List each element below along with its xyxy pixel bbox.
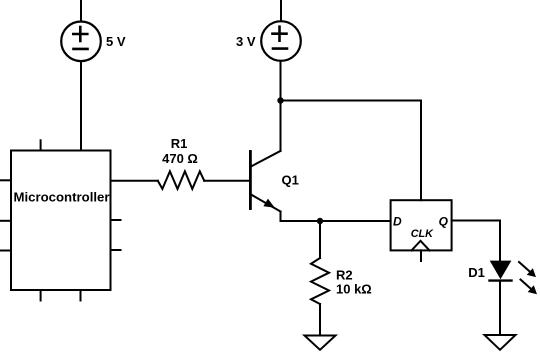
wire 3V top lead (280, 0, 282, 21)
svg-text:3 V: 3 V (236, 34, 256, 49)
V1 plus symbol (73, 27, 87, 41)
transistor Q1 base bar (249, 151, 252, 208)
LED light arrow 2 head (528, 285, 537, 294)
wire R2 to ground (319, 304, 321, 336)
junction node at 3V rail / collector (277, 97, 283, 103)
ground under LED (485, 335, 516, 350)
microcontroller bottom pin 1 (40, 290, 42, 301)
resistor R1 zigzag (158, 171, 204, 189)
resistor R2 zigzag (311, 258, 329, 304)
wire 5V source to microcontroller top pin (80, 61, 82, 150)
svg-text:Microcontroller: Microcontroller (14, 190, 110, 205)
svg-text:Q: Q (439, 214, 449, 228)
LED light arrow 1 head (527, 268, 536, 277)
transistor Q1 emitter diagonal (251, 195, 281, 212)
wire LED to ground (499, 281, 501, 335)
transistor Q1 emitter arrowhead (263, 199, 274, 208)
microcontroller right pin 3 stub (111, 249, 121, 251)
V2 minus symbol (273, 47, 287, 50)
junction node emitter / R2 / D input (317, 218, 323, 224)
svg-text:R2: R2 (336, 268, 353, 283)
microcontroller bottom pin 2 (80, 290, 82, 301)
svg-text:Q1: Q1 (282, 173, 299, 188)
voltage source V2 3V circle (261, 21, 301, 61)
microcontroller U1 box (11, 151, 111, 291)
voltage source V1 5V circle (61, 22, 101, 62)
microcontroller top pin stub (40, 140, 42, 150)
svg-text:10 kΩ: 10 kΩ (336, 282, 372, 297)
wire 3V rail to flip-flop top (281, 101, 422, 201)
microcontroller right pin 2 stub (111, 219, 121, 221)
ground under R2 (305, 336, 336, 350)
svg-text:D1: D1 (468, 265, 485, 280)
wire flip-flop Q output to LED (452, 221, 500, 262)
wire R1 to Q1 base (204, 180, 249, 182)
V2 plus symbol (273, 27, 287, 41)
svg-text:5 V: 5 V (106, 34, 126, 49)
flip-flop clock stub below (420, 250, 422, 261)
microcontroller left pin 3 (0, 250, 11, 252)
LED light arrow 1 shaft (519, 262, 531, 272)
svg-text:CLK: CLK (411, 228, 434, 240)
microcontroller left pin 1 (0, 179, 11, 181)
transistor Q1 emitter bend down (280, 212, 282, 222)
wire R2 top lead (319, 221, 321, 258)
wire 5V top lead (80, 0, 82, 22)
svg-text:D: D (393, 214, 402, 228)
LED D1 triangle (490, 261, 512, 280)
microcontroller left pin 2 (0, 220, 11, 222)
flip-flop clock edge wedge (412, 241, 430, 251)
flip-flop U2 box (391, 200, 452, 250)
wire microcontroller to R1 (111, 180, 158, 182)
LED D1 cathode bar (490, 279, 512, 281)
transistor Q1 collector diagonal (251, 151, 281, 167)
wire 3V source down to collector node (280, 61, 282, 151)
svg-text:R1: R1 (171, 136, 188, 151)
wire emitter to flip-flop D input (281, 220, 391, 222)
svg-text:470 Ω: 470 Ω (162, 151, 198, 166)
V1 minus symbol (74, 48, 88, 51)
LED light arrow 2 shaft (521, 280, 532, 290)
